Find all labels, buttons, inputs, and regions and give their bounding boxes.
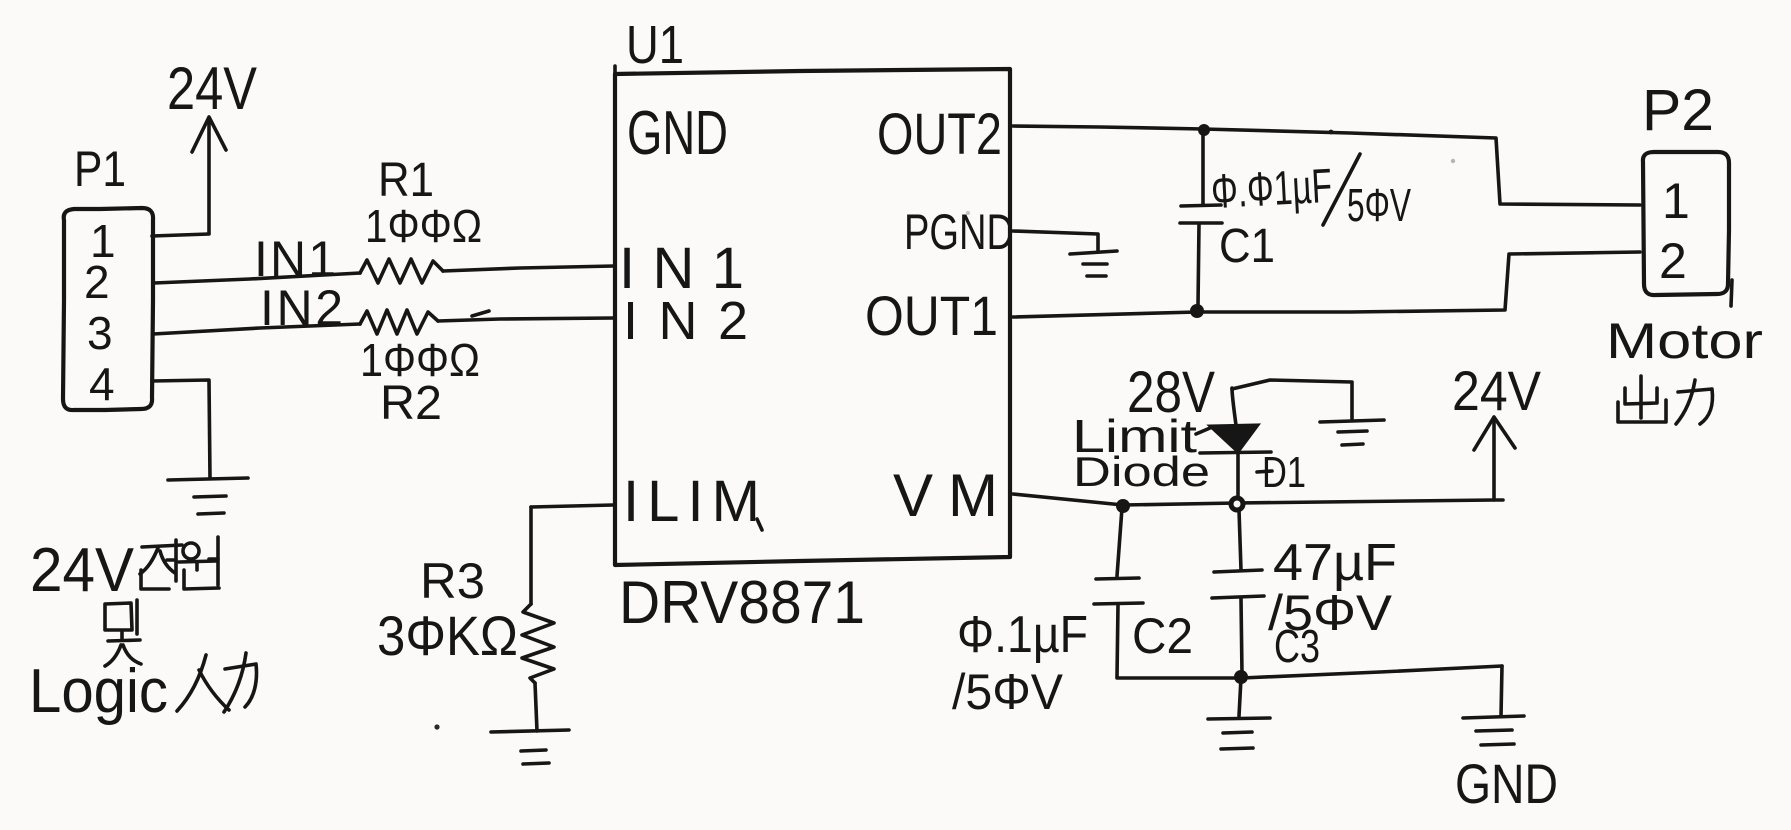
- svg-text:P2: P2: [1642, 78, 1714, 143]
- wire P1 pin1 to 24V: [152, 234, 209, 236]
- junction OUT1/C1: [1190, 304, 1204, 318]
- svg-text:Motor: Motor: [1606, 313, 1763, 369]
- svg-text:Diode: Diode: [1073, 448, 1210, 495]
- wire VM to 24V: [1013, 494, 1503, 505]
- wire C3 junction to ground: [1239, 678, 1241, 716]
- hangul mit: [105, 600, 141, 666]
- svg-text:47µF: 47µF: [1273, 534, 1397, 592]
- wire D1 anode to ground: [1232, 380, 1352, 420]
- stray pen dot: [434, 724, 439, 729]
- svg-text:Logic: Logic: [29, 657, 168, 726]
- wire GND bus (C2/C3 to right): [1117, 666, 1502, 678]
- svg-text:PGND: PGND: [904, 204, 1014, 260]
- junction VM/C2: [1116, 499, 1130, 513]
- svg-text:5ΦV: 5ΦV: [1347, 179, 1411, 231]
- diode D1: [1196, 388, 1271, 498]
- svg-text:4: 4: [89, 358, 115, 410]
- ground (below P1): [168, 478, 248, 514]
- wire IN2: P1 pin3 to R2: [153, 324, 360, 334]
- wire OUT1 to P2 pin2: [1013, 252, 1640, 317]
- svg-text:24V: 24V: [30, 536, 135, 605]
- ground (below R3): [491, 730, 569, 764]
- kanji nyuuryoku (input): [177, 653, 257, 712]
- wire R2 to U1 IN2: [438, 318, 614, 321]
- ground (PGND): [1070, 251, 1117, 276]
- svg-text:24V: 24V: [1452, 359, 1542, 422]
- svg-text:Φ.1µF: Φ.1µF: [957, 606, 1088, 664]
- svg-text:/5ΦV: /5ΦV: [952, 664, 1064, 720]
- svg-text:D1: D1: [1262, 448, 1306, 497]
- kanji shutsuryoku (output): [1618, 376, 1713, 424]
- tick after ILIM: [757, 519, 762, 530]
- svg-text:GND: GND: [627, 99, 728, 168]
- resistor R3: [522, 604, 554, 683]
- svg-text:3ΦKΩ: 3ΦKΩ: [377, 604, 518, 667]
- svg-text:OUT2: OUT2: [877, 102, 1002, 167]
- ground (below C3): [1208, 718, 1270, 749]
- svg-text:IN1: IN1: [254, 231, 336, 287]
- svg-text:2: 2: [1659, 233, 1687, 289]
- ground (D1): [1320, 420, 1384, 445]
- faint scan dot 2: [966, 211, 970, 215]
- capacitor C2: [1094, 508, 1143, 677]
- resistor R2: [360, 310, 438, 334]
- svg-text:U1: U1: [626, 15, 684, 75]
- svg-text:1: 1: [1662, 173, 1690, 229]
- svg-text:GND: GND: [1455, 752, 1558, 815]
- faint scan dot: [1451, 159, 1455, 163]
- svg-text:C3: C3: [1274, 620, 1320, 672]
- junction C3/GND bus: [1234, 670, 1248, 684]
- svg-text:P1: P1: [74, 141, 126, 197]
- slash of C1 value: [1323, 154, 1360, 225]
- wire U1 ILIM to R3: [531, 505, 613, 507]
- U1 corner overshoot: [613, 66, 617, 74]
- junction VM/D1/C3 (ring): [1231, 498, 1243, 510]
- svg-text:3: 3: [87, 307, 113, 359]
- wire P1 pin4 to ground: [152, 380, 210, 478]
- svg-text:Φ.Φ1µF: Φ.Φ1µF: [1210, 160, 1334, 219]
- hangul jeon-won: [140, 537, 219, 589]
- svg-text:1ΦΦΩ: 1ΦΦΩ: [365, 200, 482, 252]
- IC U1 box: [615, 69, 1010, 565]
- connector P2: [1643, 152, 1729, 295]
- capacitor C1: [1180, 133, 1222, 306]
- svg-text:C2: C2: [1132, 608, 1193, 664]
- wire GND bus right drop: [1501, 666, 1502, 716]
- wire R1 to U1 IN1: [443, 266, 614, 271]
- connector P1: [63, 208, 153, 410]
- svg-text:DRV8871: DRV8871: [619, 569, 865, 636]
- wire OUT2 to P2 pin1: [1013, 126, 1640, 205]
- 24V supply arrow (left): [192, 117, 226, 233]
- svg-text:C1: C1: [1219, 220, 1275, 273]
- svg-text:2: 2: [84, 256, 110, 308]
- 24V supply arrow (right): [1474, 417, 1515, 500]
- wire tick near R2: [472, 311, 489, 316]
- resistor R1: [360, 259, 443, 283]
- wire U1 PGND to ground: [1013, 231, 1098, 251]
- ground (GND label): [1463, 716, 1524, 745]
- svg-text:IN2: IN2: [260, 280, 343, 336]
- wire R3 top: [529, 507, 533, 604]
- P2 corner tail: [1731, 280, 1732, 306]
- pen speck on OUT2 wire: [1329, 130, 1334, 135]
- wire IN1: P1 pin2 to R1: [154, 273, 360, 283]
- label D1 strikethrough: [1257, 471, 1272, 472]
- capacitor C3: [1212, 510, 1264, 674]
- wire R3 to ground: [535, 683, 537, 731]
- junction OUT2/C1: [1198, 124, 1210, 136]
- svg-text:24V: 24V: [167, 55, 257, 122]
- svg-text:R3: R3: [420, 553, 485, 609]
- svg-text:R2: R2: [380, 377, 442, 430]
- svg-text:OUT1: OUT1: [865, 284, 998, 347]
